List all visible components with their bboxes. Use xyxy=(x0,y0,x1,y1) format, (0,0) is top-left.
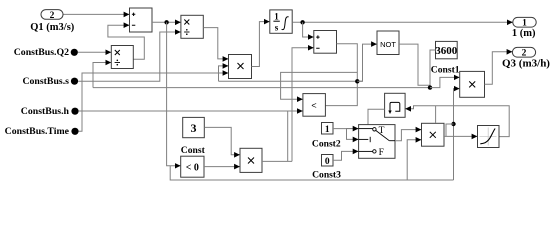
node junction mid xyxy=(355,79,359,83)
svg-text:0: 0 xyxy=(325,157,330,167)
wire Q1 to Sum1 xyxy=(63,13,129,15)
svg-text:F: F xyxy=(379,148,384,158)
wire parallel riser segment xyxy=(287,111,289,161)
outport 2 (Q3) xyxy=(512,47,535,58)
wire ConstBus.Q2 to divide1 x xyxy=(78,51,111,53)
svg-text:< 0: < 0 xyxy=(186,162,199,173)
wire branch to divide1 den xyxy=(93,63,111,88)
wire dot to product4 top input xyxy=(430,77,459,87)
constant 0 (Const3) xyxy=(322,155,334,167)
wire divide1 out to sum1 minus xyxy=(108,25,144,59)
svg-text:2: 2 xyxy=(50,11,55,21)
wire lt0 out to product2 bottom xyxy=(204,166,240,168)
wire L2 riser to product1 middle xyxy=(219,66,229,81)
inport 2 (Q1) xyxy=(41,10,63,21)
wire ConstBus.h to relational bottom xyxy=(79,110,303,112)
wire integrator out to outport1 xyxy=(292,21,512,23)
wire divide2 out to product1 top xyxy=(203,28,228,59)
wire const3 to product2 top xyxy=(204,127,239,154)
wire 3600 hook down to dot xyxy=(430,50,436,88)
svg-text:3: 3 xyxy=(191,121,197,135)
svg-text:s: s xyxy=(275,23,279,33)
wire product3 out to saturation xyxy=(444,135,477,137)
node junction q3 tap xyxy=(451,122,455,126)
wire NOT out down to dot xyxy=(399,44,430,88)
wire memory out staircase to switch control xyxy=(347,109,385,139)
svg-text:ConstBus.h: ConstBus.h xyxy=(21,106,70,117)
wire product4 out to outport Q3 xyxy=(485,52,513,85)
wire L2 feedback line xyxy=(219,80,363,82)
svg-text:1: 1 xyxy=(522,19,527,29)
svg-text:Const3: Const3 xyxy=(312,170,341,181)
wire L3 long line xyxy=(93,87,430,89)
wire product1 out to integrator xyxy=(252,22,270,67)
logical operator U_NOT xyxy=(377,31,399,55)
svg-text:1 (m): 1 (m) xyxy=(512,28,536,39)
sum U_Sum1 xyxy=(130,8,153,32)
memory block U_Mem xyxy=(385,93,406,117)
svg-text:NOT: NOT xyxy=(380,40,396,49)
wire sum1 out to divide2 xyxy=(152,21,181,23)
svg-text:Q1 (m3/s): Q1 (m3/s) xyxy=(30,22,75,33)
wire bottom long line loop to lt0 xyxy=(170,166,453,180)
wire L1b to relational top xyxy=(281,72,358,99)
wire const1 to switch T xyxy=(333,128,358,130)
wire switch out to product3 first input xyxy=(395,130,421,141)
constant 3600 (Const1) xyxy=(435,41,458,58)
wire saturation loopback into memory right side xyxy=(405,106,509,137)
wire sum1 out riser down to lessthan0 xyxy=(167,22,181,166)
node ConstBus.h xyxy=(21,106,79,117)
wire sum2 out to mid riser xyxy=(325,44,357,106)
wire h down to sum2 plus xyxy=(303,22,314,37)
svg-text:3600: 3600 xyxy=(435,45,458,57)
node junction gain dot xyxy=(428,85,432,89)
wire sum2 minus feed riser xyxy=(292,48,314,162)
compare to zero block U_LT0 (< 0) xyxy=(181,156,204,177)
constant 3 (Const) xyxy=(183,117,205,137)
svg-text:1: 1 xyxy=(325,125,330,135)
wire loop branch down to product3 top xyxy=(435,106,437,123)
svg-text:Const2: Const2 xyxy=(312,138,341,149)
wire tap stub to product3 out xyxy=(446,124,454,136)
outport 1 (level) xyxy=(513,17,536,28)
sum U_Sum2 xyxy=(314,31,337,54)
switch U_Switch xyxy=(359,125,395,159)
svg-text:ConstBus.Time: ConstBus.Time xyxy=(5,126,70,137)
node junction sum1 out xyxy=(164,20,168,24)
product U_Prod2 xyxy=(240,148,262,172)
integrator U_Int (1/s) xyxy=(270,10,292,33)
node junction h xyxy=(300,20,304,24)
product U_Prod1 xyxy=(229,55,252,79)
wire product2 out to sum2 riser xyxy=(262,160,292,162)
node ConstBus.s xyxy=(22,76,78,87)
node ConstBus.Time xyxy=(5,126,79,137)
relational operator U_LT (<) xyxy=(303,94,326,117)
wire bottom line riser to product3 second input xyxy=(407,140,421,180)
wire to NOT input xyxy=(357,44,376,81)
svg-text:<: < xyxy=(311,101,316,111)
divide U_Div1 xyxy=(111,46,133,69)
svg-text:ConstBus.Q2: ConstBus.Q2 xyxy=(14,47,69,58)
product U_Prod4 (x near Q3) xyxy=(460,71,485,97)
svg-text:1: 1 xyxy=(274,12,279,22)
svg-text:Const1: Const1 xyxy=(431,65,460,76)
svg-text:Q3 (m3/h): Q3 (m3/h) xyxy=(502,57,550,69)
wire ConstBus.Time riser and L1 line to product1 bottom xyxy=(79,73,229,131)
wire bottom net riser to product4 bottom input xyxy=(454,89,460,180)
product U_Prod3 (before saturation) xyxy=(422,123,445,146)
svg-text:Const: Const xyxy=(181,145,206,156)
saturation block U_Sat xyxy=(478,126,500,148)
svg-text:ConstBus.s: ConstBus.s xyxy=(22,76,69,87)
constant 1 (Const2) xyxy=(322,123,334,135)
wire ConstBus.s to divide2 den riser xyxy=(78,32,181,81)
divide U_Div2 xyxy=(181,15,203,38)
wire const0 to switch F xyxy=(333,151,358,160)
node ConstBus.Q2 xyxy=(14,47,78,58)
